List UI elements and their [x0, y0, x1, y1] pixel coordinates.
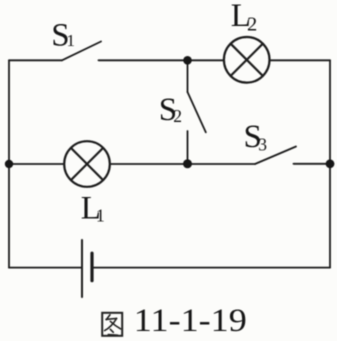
wire: middle rail, centre junction to S3 pivot — [188, 163, 256, 165]
svg-text:2: 2 — [247, 13, 257, 35]
label S1 — [51, 17, 75, 53]
svg-text:3: 3 — [258, 134, 267, 154]
node: right junction on middle rail — [326, 159, 335, 168]
label S3 — [244, 119, 268, 155]
wire: top rail, S1 contact to lamp L2 — [99, 59, 224, 61]
svg-text:1: 1 — [67, 31, 76, 50]
switch S3 blade — [255, 147, 296, 165]
lamp L2 — [224, 37, 270, 83]
wire: top rail, corner to S1 pivot — [9, 59, 62, 61]
caption: character 图 (drawn) — [102, 313, 122, 336]
wire: top rail, lamp L2 to top-right corner — [270, 59, 331, 61]
label S2 — [159, 92, 182, 128]
svg-text:1: 1 — [96, 205, 105, 225]
wire: middle rail, S3 contact to right junction — [294, 163, 331, 165]
switch S1 blade — [62, 42, 101, 61]
wire: S2 branch, top junction down to S2 pivot — [187, 60, 189, 92]
label L2 — [231, 0, 258, 35]
battery (cell) — [82, 240, 92, 297]
wire: right vertical rail — [329, 60, 331, 267]
node: centre junction on middle rail — [183, 159, 192, 168]
wire: S2 branch, lower contact to centre junction — [187, 131, 189, 164]
lamp L1 — [64, 141, 110, 187]
switch S2 blade — [188, 92, 206, 132]
node: junction on top rail — [183, 56, 192, 65]
node: left junction on middle rail — [5, 160, 13, 168]
wire: middle rail, lamp L1 to centre junction — [110, 163, 188, 165]
label L1 — [81, 191, 105, 227]
svg-text:11-1-19: 11-1-19 — [134, 303, 247, 339]
wire: bottom rail, battery to right corner — [92, 267, 330, 269]
wire: middle rail, left junction to lamp L1 — [9, 163, 64, 165]
wire: left vertical rail — [8, 60, 10, 267]
wire: bottom rail, left corner to battery — [9, 267, 82, 269]
svg-text:2: 2 — [173, 106, 182, 126]
